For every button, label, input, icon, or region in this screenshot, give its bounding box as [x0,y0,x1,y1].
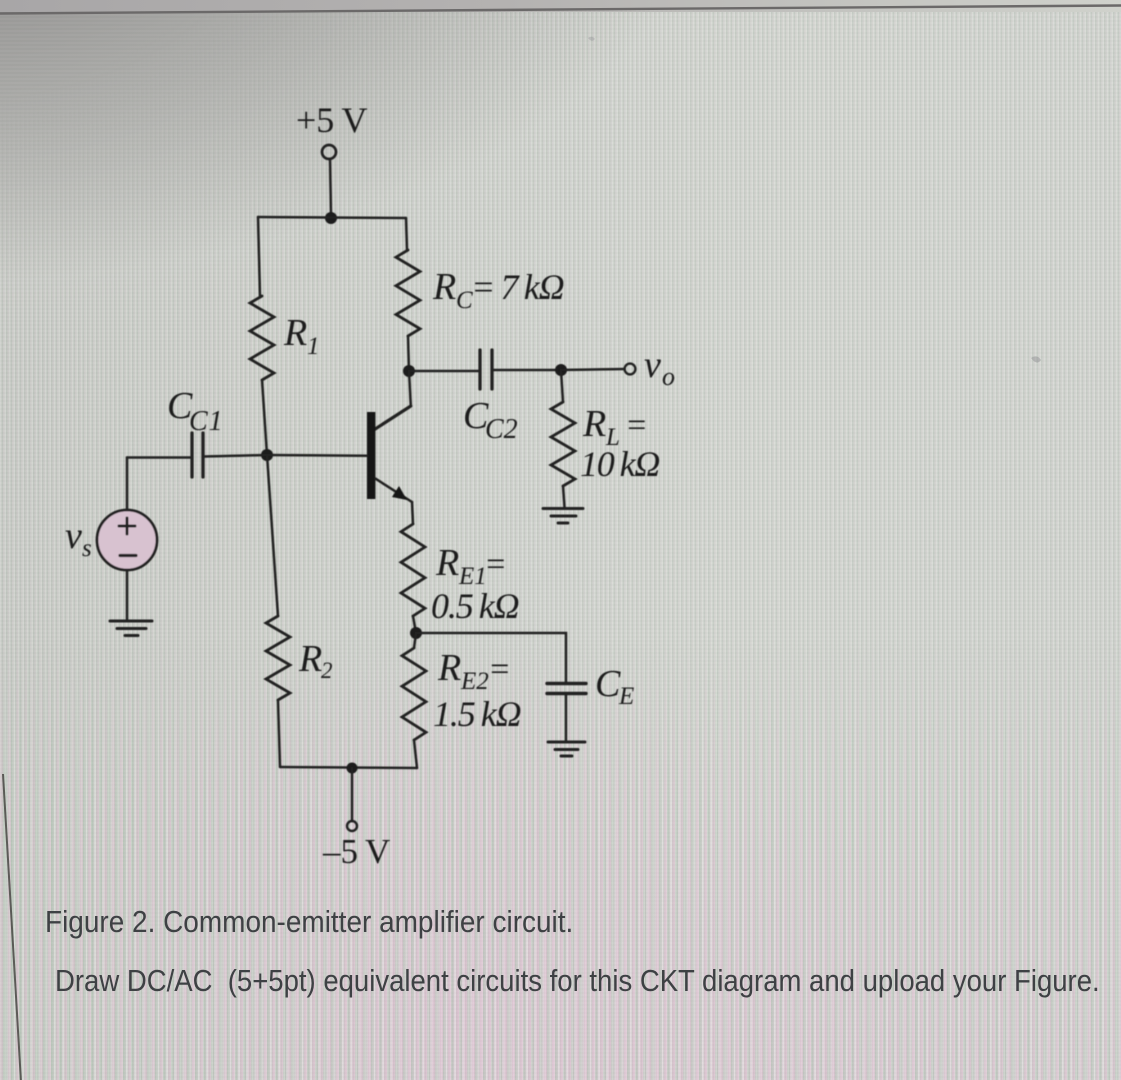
ground below CE [548,742,585,756]
svg-text:=: = [625,407,648,444]
label RE2 = [437,647,511,695]
wire to vo terminal [561,369,624,370]
wire RC bottom to collector junction [408,336,409,371]
transistor Q1 emitter lead with arrow [375,479,412,502]
svg-text:C: C [595,663,621,705]
node output junction [555,364,567,376]
svg-text:2: 2 [321,658,333,683]
resistor RL [551,402,575,486]
wire RE2 bottom lead [414,740,417,768]
capacitor CE plates [547,682,586,685]
svg-text:s: s [82,535,92,562]
wire collector junction to CC2 [409,370,478,373]
svg-text:E: E [618,683,634,710]
terminal +5V open circle [322,145,336,159]
wire vs to CC1 [127,456,190,459]
resistor RE1 [401,524,425,616]
label RL = [582,403,648,451]
wire junction to RE2 [414,633,416,648]
ground below vs [110,621,152,636]
svg-text:= 7 kΩ: = 7 kΩ [471,267,564,307]
wire base junction down to R2 [267,455,278,616]
wire vs bottom stub [126,570,129,619]
faint smudge top right [1031,356,1041,362]
svg-text:R: R [283,312,307,354]
stronger pink/green checker moire in bottom band [0,640,1121,1080]
wire emitter down to RE1 [412,502,413,524]
wire CC2 to output junction [493,369,561,372]
node base junction [261,449,273,461]
label R2 [298,638,333,683]
wire base [267,454,367,457]
svg-text:=: = [488,651,511,688]
wire emitter junction to CE branch [416,633,566,682]
label RC = 7 kOhm [432,266,564,314]
svg-text:R: R [582,403,606,445]
node emitter junction [410,627,422,639]
transistor Q1 collector lead [375,406,411,429]
wire R2 bottom lead [278,700,280,767]
terminal vo open circle [625,364,636,375]
resistor RC [396,250,420,336]
svg-text:1.5 kΩ: 1.5 kΩ [433,694,521,734]
wire RE1 to emitter junction [413,616,416,633]
label 0.5 kOhm [431,586,519,626]
resistor R1 [250,296,274,380]
wire bottom rail [280,767,417,768]
vs minus sign [120,554,136,557]
svg-text:E2: E2 [460,668,489,695]
node collector junction [403,365,415,377]
terminal -5V open circle [347,821,357,831]
wire collector junction down [409,371,411,406]
label CE [595,663,634,710]
svg-text:o: o [662,362,675,391]
label vs [65,515,92,562]
capacitor CC2 plates [478,350,481,389]
label CC1 [167,385,224,437]
wire CE to ground [565,694,568,741]
node bottom rail junction [347,763,358,774]
svg-text:C1: C1 [189,406,224,437]
caption line 1 [45,904,573,940]
svg-text:v: v [644,344,661,386]
wire RC top lead [406,218,407,250]
svg-text:C2: C2 [485,414,518,445]
wire left branch down to R1 [258,217,260,296]
node top rail junction [325,212,337,224]
label RE1 = [435,542,507,590]
svg-text:+5 V: +5 V [296,100,368,140]
svg-text:R: R [437,647,461,689]
label R1 [283,312,320,360]
wire CC1 to base junction [204,455,267,457]
caption line 2 [55,963,1100,999]
wire RL to ground [563,486,565,507]
resistor R2 [266,616,290,700]
ground below RL [543,509,583,524]
label CC2 [463,395,518,445]
svg-text:R: R [298,638,322,680]
source vs circle [97,510,157,570]
vs plus sign [119,518,135,534]
wire R1 to base junction [262,380,267,455]
label 1.5 kOhm [433,694,521,734]
top gray band above bezel line [0,0,1121,12]
label vo [644,344,675,391]
label 10 kOhm [580,444,659,484]
svg-text:–5 V: –5 V [322,832,390,871]
wire RL top lead [561,370,563,402]
transistor Q1 base bar [367,412,375,499]
svg-text:v: v [65,515,82,557]
wire stub to -5V terminal [351,768,354,821]
svg-text:1: 1 [307,333,320,360]
svg-text:10 kΩ: 10 kΩ [580,444,659,484]
svg-text:R: R [432,266,456,308]
wire vs top stub [126,458,129,511]
resistor RE2 [402,648,426,740]
svg-text:0.5 kΩ: 0.5 kΩ [431,586,519,626]
bezel line across top [0,6,1121,14]
bottom-left bezel diagonal [3,774,21,1080]
wire +5V terminal to top rail [330,159,331,215]
capacitor CC1 plates [190,433,193,477]
svg-text:=: = [484,546,507,583]
svg-text:R: R [435,542,459,584]
wire top rail [258,217,406,218]
